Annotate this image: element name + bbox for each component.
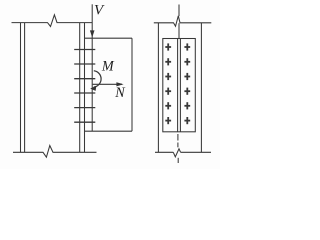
centerline dash below bottom line [177,158,179,163]
column left flange line 1 [20,23,22,153]
bolt tick row 4 [74,92,95,94]
centerline break zigzag bottom [173,149,180,157]
bolt r5c2 [184,102,190,109]
column left flange line 2 [24,23,26,153]
end view outer flange left edge [157,23,159,153]
top break line (elevation) [12,15,93,27]
moment M arc arrowhead [90,86,96,91]
bolt r3c2 [184,73,190,80]
bolt tick row 1 [74,49,95,51]
shear force V arrowhead [90,30,95,37]
column centerline above [178,5,180,17]
bolt tick row 3 [74,78,95,80]
bracket plate bottom edge [85,130,133,132]
axial force N arrow shaft [93,83,122,85]
column centerline dash 2 [177,143,179,148]
end view top break line [154,16,212,26]
svg-text:M: M [101,59,115,75]
bolt r1c1 [165,43,171,50]
bottom break line (elevation) [13,146,97,158]
bolt r4c1 [165,88,171,95]
end view bottom line [155,151,173,153]
end view outer flange right edge [200,23,202,153]
bolt r1c2 [184,43,190,50]
moment M arc [94,71,101,87]
bracket plate right edge [131,38,133,131]
bolt r4c2 [184,88,190,95]
gusset edge line 2 [179,39,181,132]
gusset edge line 1 [177,39,179,132]
bolt tick row 2 [74,63,95,65]
column centerline mid [178,23,180,38]
bracket plate top edge [85,37,133,39]
bolt r2c2 [184,58,190,65]
bolt tick row 6 [74,121,95,123]
bolt r2c1 [165,58,171,65]
axial force N arrowhead [116,82,123,86]
bolt r3c1 [165,73,171,80]
svg-text:V: V [94,3,105,19]
end view plate rectangle [163,39,196,132]
svg-text:N: N [114,85,126,101]
column centerline dash 1 [177,134,179,141]
bolt cross symbols [165,43,190,124]
bracket plate left edge / bolt line [91,4,93,131]
bolt r6c1 [165,117,171,124]
bolt r5c1 [165,102,171,109]
bolt tick row 5 [74,107,95,109]
column right flange line 1 [79,23,81,153]
column right flange line 2 [84,23,86,153]
bolt r6c2 [184,117,190,124]
